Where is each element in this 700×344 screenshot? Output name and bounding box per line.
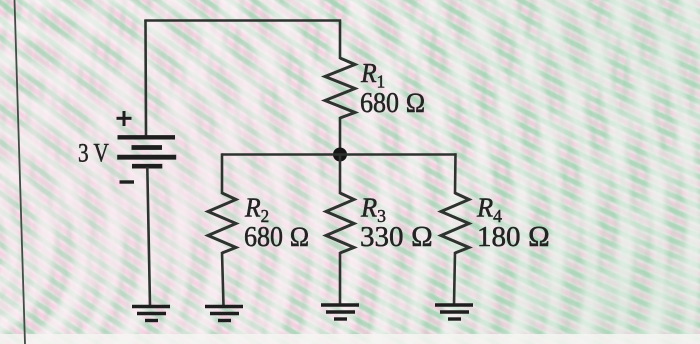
battery V1 plate short bottom — [132, 164, 162, 169]
label R3 — [360, 192, 386, 226]
label 3 V — [78, 139, 109, 168]
resistor R2 — [208, 193, 236, 253]
battery V1 plate short — [132, 145, 163, 150]
value 180 ohm (R4) — [477, 221, 550, 253]
screen edge line — [15, 0, 26, 344]
svg-text:330 Ω: 330 Ω — [360, 221, 433, 253]
wire battery bottom lead — [147, 167, 150, 306]
wire R3 to ground — [339, 252, 342, 305]
wire R1 to node — [339, 117, 342, 155]
wire top to R1 — [339, 20, 342, 60]
wire middle horizontal — [222, 153, 457, 156]
wire R4 to ground — [454, 252, 455, 305]
value 680 ohm (R2) — [244, 221, 310, 252]
wire battery top lead — [144, 20, 147, 137]
wire top horizontal — [144, 19, 341, 22]
battery V1 plate long — [117, 155, 176, 160]
value 330 ohm (R3) — [360, 221, 433, 253]
wire R2 to ground — [222, 252, 224, 306]
node A junction dot — [333, 148, 347, 162]
resistor R1 — [325, 58, 355, 118]
wire node to R2 drop — [221, 153, 224, 194]
label R4 — [476, 192, 502, 226]
wire middle to R4 drop — [454, 153, 457, 194]
ground battery — [132, 307, 170, 321]
plus sign — [117, 111, 132, 126]
label R1 — [360, 58, 385, 91]
resistor R3 — [326, 193, 354, 253]
svg-text:3 V: 3 V — [78, 139, 109, 168]
value 680 ohm (R1) — [360, 87, 426, 118]
svg-text:180 Ω: 180 Ω — [477, 221, 550, 253]
resistor R4 — [441, 193, 469, 253]
label R2 — [244, 193, 269, 226]
svg-text:680 Ω: 680 Ω — [360, 87, 426, 118]
minus sign — [120, 180, 135, 183]
ground R3 — [321, 305, 359, 319]
ground R4 — [435, 305, 473, 319]
battery V1 plate long top — [118, 135, 176, 139]
svg-text:680 Ω: 680 Ω — [244, 221, 310, 252]
wire node to R3 — [339, 155, 342, 194]
ground R2 — [205, 307, 243, 321]
